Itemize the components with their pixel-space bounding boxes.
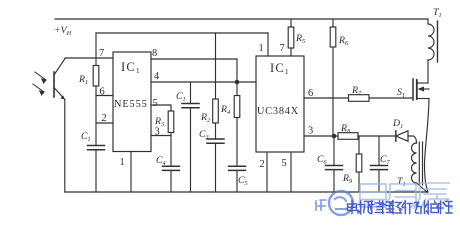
node junction dot pin4 wire [235,80,240,85]
wire pin4 of U1 to U2 [151,81,256,83]
node +VH label [54,25,72,37]
op-amp U2 name labels [257,61,299,117]
resistor R2 [213,33,219,139]
pin 7 label [99,48,104,59]
resistor R6 label [338,35,349,47]
capacitor C3 label [199,129,209,141]
svg-text:IC1: IC1 [121,60,141,75]
transformer T1 label bottom [397,176,406,188]
svg-text:+VH: +VH [54,25,72,37]
svg-text:R6: R6 [338,35,349,47]
phototransistor Q1 light arrows [33,72,46,95]
capacitor C1 label [81,131,91,143]
svg-text:2: 2 [102,113,107,124]
wire pin1 of U1 to ground rail [130,152,132,193]
phototransistor Q1 [54,59,65,100]
svg-text:R7: R7 [351,85,362,97]
wire drain of S1 to T1 primary [427,60,429,83]
svg-text:R9: R9 [342,173,353,185]
capacitor C7 [371,136,388,192]
capacitor C5 [229,166,246,192]
svg-text:3: 3 [308,126,313,137]
wire pin6 of U1 [96,95,113,97]
svg-text:R5: R5 [295,33,305,45]
wire D1 anode to T1 secondary [408,136,417,143]
wire +V rail top [55,18,428,20]
capacitor C2 label [176,91,186,103]
resistor R7 [349,95,370,102]
resistor R4 label [220,104,230,116]
capacitor C5 label [238,175,248,187]
wire pin8 of U1 over to R4 branch [151,59,237,82]
svg-text:C1: C1 [81,131,91,143]
pin 5 label [282,158,287,169]
svg-text:C6: C6 [317,154,328,166]
resistor R4 [234,82,240,166]
wire pin3 of U2 [304,135,338,137]
diode D1 label [392,118,403,130]
svg-text:8: 8 [152,48,157,59]
svg-text:NE555: NE555 [114,99,148,110]
svg-text:C4: C4 [156,155,166,167]
wire pin7 of U1 to collector [65,57,113,59]
svg-text:1: 1 [259,43,264,54]
op-amp U2 UC384X box [256,56,304,152]
svg-text:D1: D1 [392,118,403,130]
svg-text:R8: R8 [340,123,351,135]
pin 1 label [120,157,125,168]
pin 6 label [308,88,313,99]
resistor R3 [168,111,174,166]
svg-text:4: 4 [154,71,160,82]
watermark partial glyph left [316,200,326,210]
svg-text:R4: R4 [220,104,230,116]
watermark logo ring [329,191,353,215]
wire pin3 of U1 [151,135,171,137]
wire R7 to gate of S1 [369,97,413,99]
wire ground rail bottom [65,191,428,193]
wire second supply rail [96,32,268,34]
transistor S1 label [397,87,405,99]
pin 4 label [154,71,160,82]
transformer T1 label top [433,7,442,19]
transformer T1 primary winding [428,19,434,60]
wire pin1 of U2 from supply rail [267,33,269,56]
pin 2 label [260,159,265,170]
transformer T1 secondary winding [412,143,428,192]
transformer T1 secondary core [419,142,422,185]
resistor R1 value label [78,74,88,86]
svg-text:R3: R3 [154,116,164,128]
pin 8 label [152,48,157,59]
svg-text:C5: C5 [238,175,248,187]
pin 3 label [308,126,313,137]
svg-text:C3: C3 [199,129,209,141]
transistor S1 MOSFET [413,79,429,100]
op-amp U1 NE555 box [113,52,151,152]
resistor R3 label [154,116,164,128]
pin 3 label [155,127,160,138]
wire pin2 of U2 to ground rail [266,152,268,192]
svg-text:T1: T1 [433,7,442,19]
watermark text 电机控制设计加油站 [348,201,453,214]
capacitor C3 [207,139,224,192]
node junction dot pin3 wire [332,134,337,139]
svg-text:C7: C7 [380,154,391,166]
resistor R2 label [200,112,211,124]
resistor R1 [93,33,99,146]
svg-text:IC1: IC1 [270,61,290,76]
watermark big text 日月辰 [360,183,452,208]
wire source of S1 down to ground rail corner [425,99,430,193]
resistor R8 [338,133,358,140]
wire pin6 of U2 to gate [304,97,349,99]
svg-text:7: 7 [99,48,104,59]
svg-text:7: 7 [280,43,285,54]
resistor R9 [356,136,362,192]
resistor R7 label [351,85,362,97]
wire pin2 of U1 [96,122,113,124]
svg-text:T1: T1 [397,176,406,188]
svg-text:R2: R2 [200,112,211,124]
capacitor C7 label [380,154,391,166]
wire R8 to D1 [358,135,395,137]
resistor R6 [330,19,336,136]
pin 2 label [102,113,107,124]
svg-text:S1: S1 [397,87,405,99]
resistor R5 [288,19,294,56]
svg-text:1: 1 [120,157,125,168]
resistor R9 label [342,173,353,185]
svg-text:6: 6 [308,88,313,99]
svg-text:R1: R1 [78,74,88,86]
capacitor C4 label [156,155,166,167]
svg-text:6: 6 [100,87,105,98]
diode D1 [396,131,408,141]
capacitor C6 [326,136,343,192]
resistor R8 label [340,123,351,135]
pin 5 label [153,98,158,109]
pin 6 label [100,87,105,98]
capacitor C1 [88,146,105,193]
capacitor C4 [163,166,180,192]
capacitor C2 [182,82,199,192]
svg-text:5: 5 [282,158,287,169]
capacitor C6 label [317,154,328,166]
wire pin5 of U2 to ground rail [290,152,292,192]
transformer T1 core [437,21,439,62]
svg-text:2: 2 [260,159,265,170]
svg-text:C1: C1 [176,91,186,103]
pin 7 label [280,43,285,54]
op-amp U1 name labels [114,60,148,110]
svg-text:UC384X: UC384X [257,106,299,117]
wire pin5 of U1 [151,105,171,111]
svg-text:5: 5 [153,98,158,109]
pin 1 label [259,43,264,54]
resistor R5 label [295,33,305,45]
wire emitter to ground rail [64,100,66,193]
